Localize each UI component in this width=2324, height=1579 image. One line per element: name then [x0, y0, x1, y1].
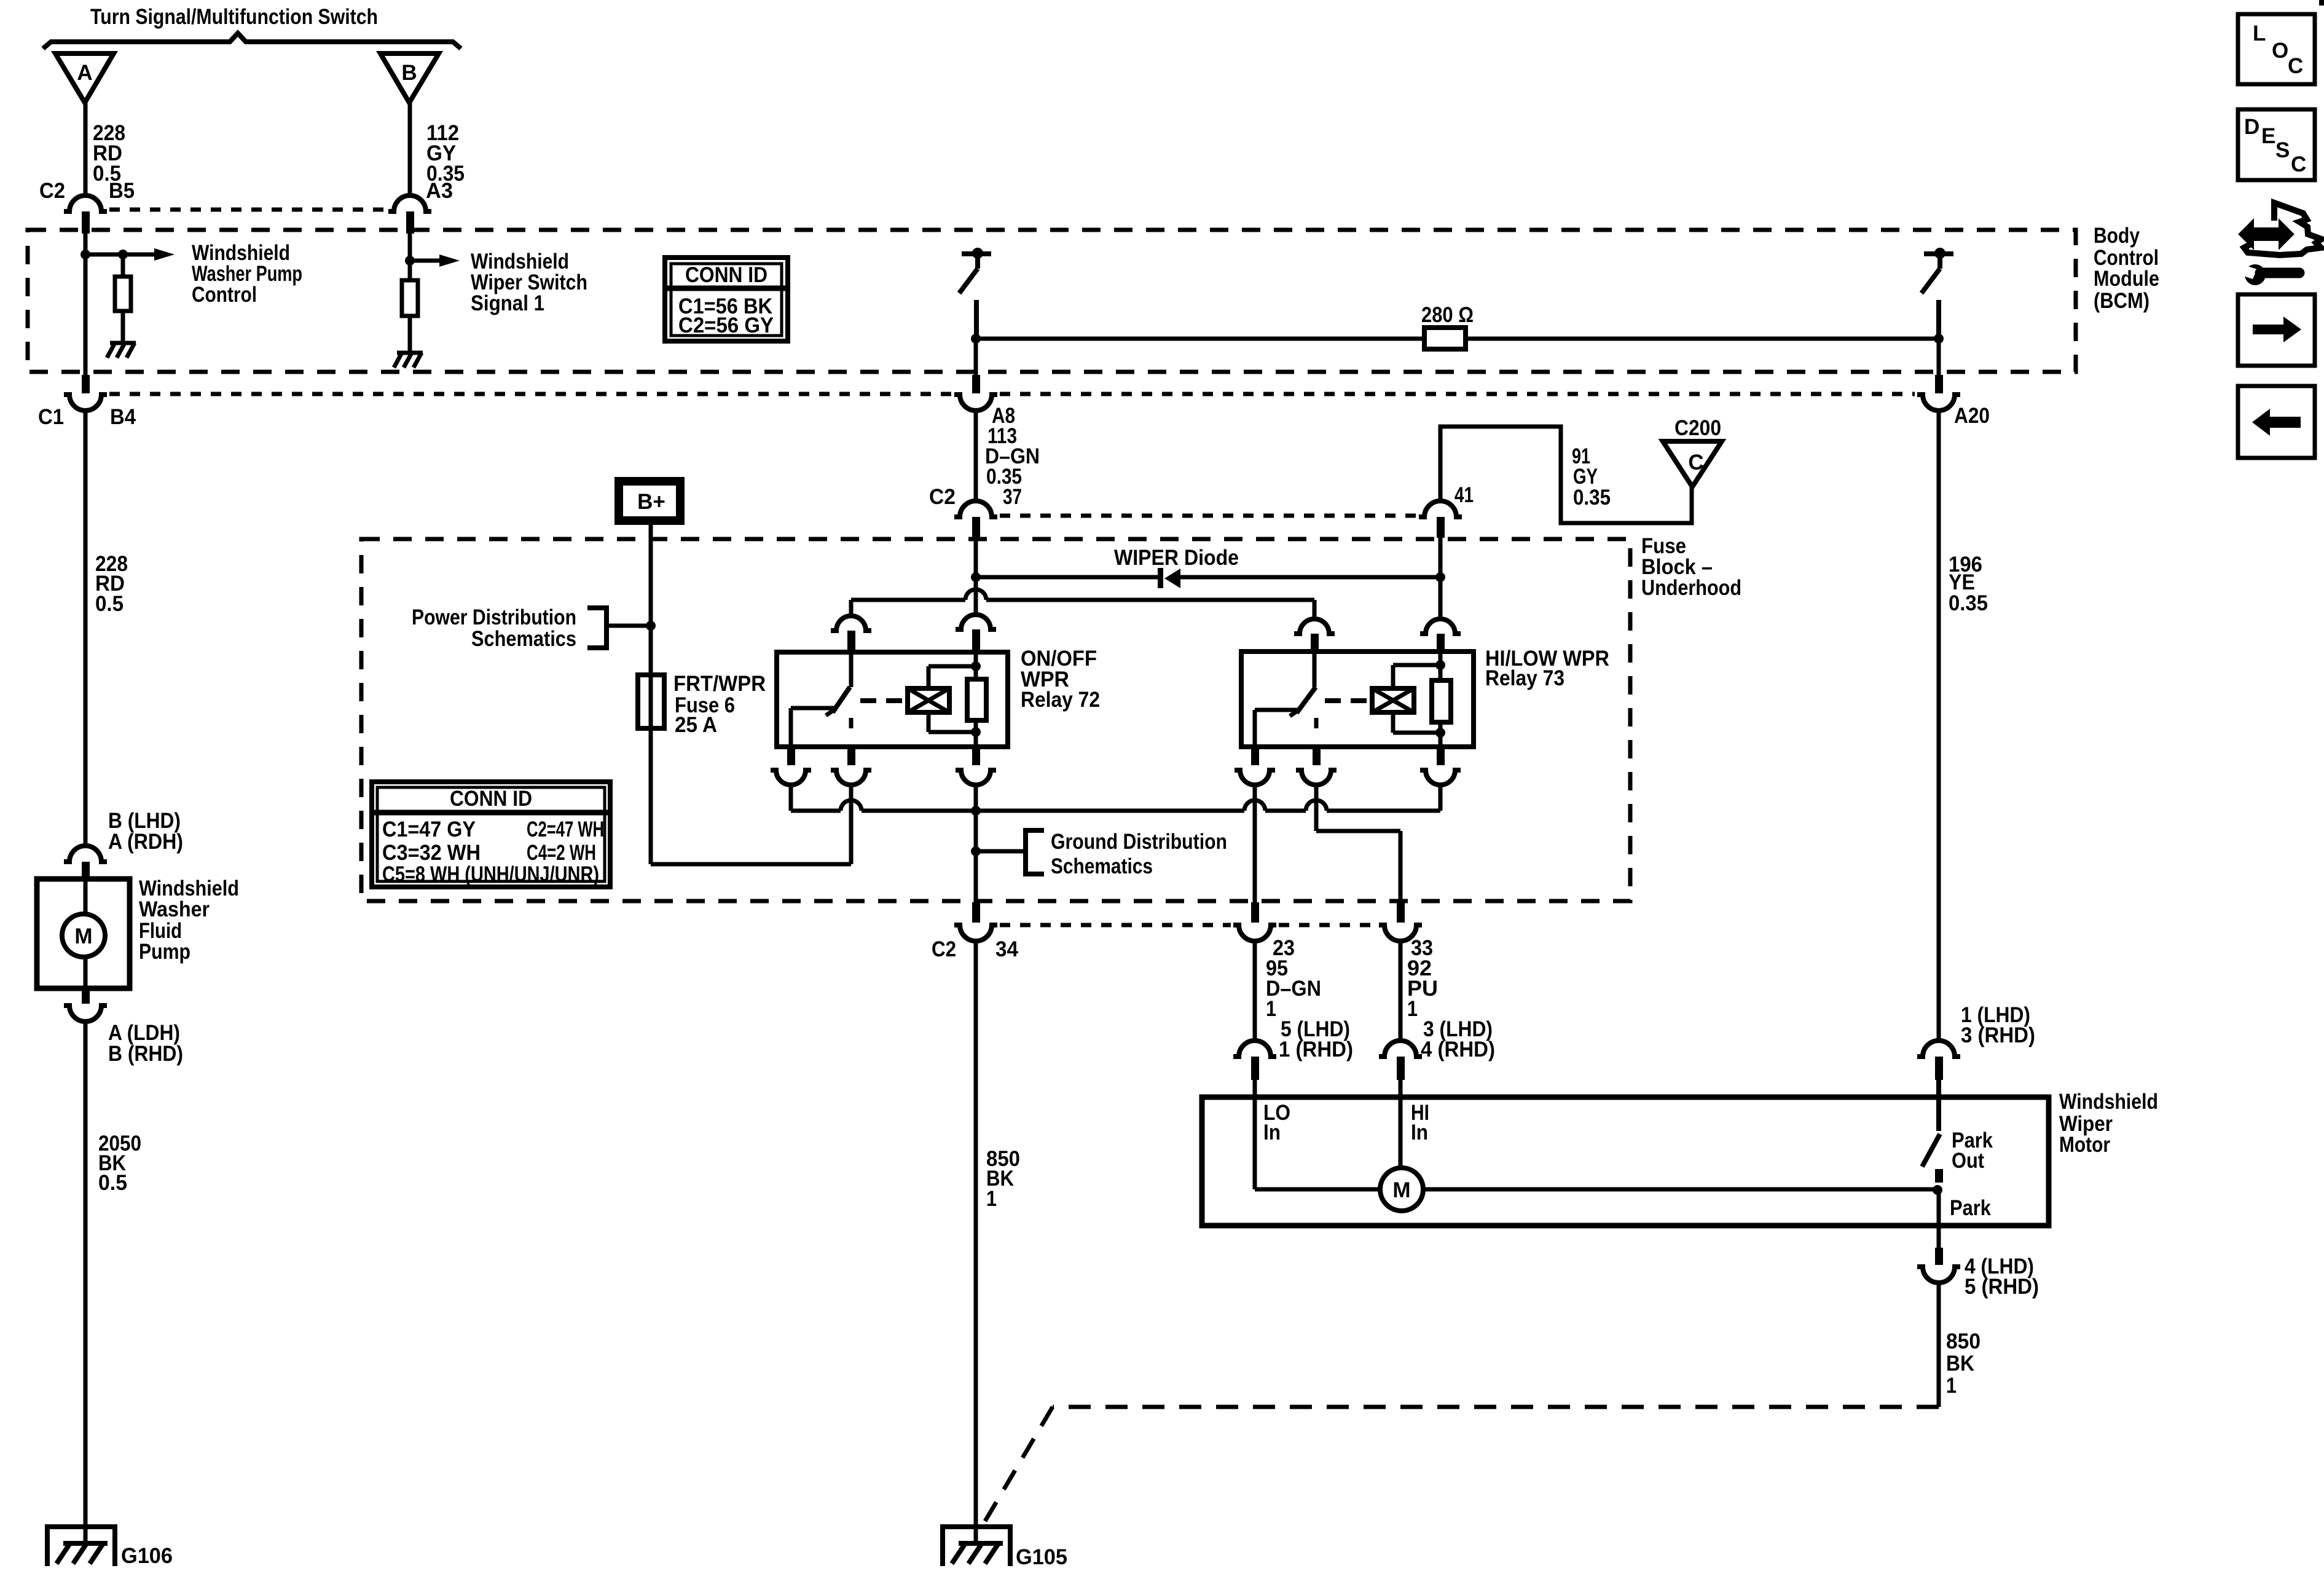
label 5 (LHD) 1 (RHD) — [1279, 1017, 1353, 1061]
svg-text:S: S — [2275, 138, 2290, 162]
svg-text:CONN ID: CONN ID — [450, 787, 532, 811]
bracket Power Distribution Schematics — [587, 608, 651, 648]
label C2 B5 — [39, 179, 135, 203]
arrow Windshield Wiper Switch Signal 1 — [439, 254, 460, 267]
svg-text:B (RHD): B (RHD) — [108, 1042, 183, 1066]
wire motor HI internal — [1399, 1080, 1403, 1168]
node washer pump control tee — [80, 250, 154, 259]
wire B inside BCM — [408, 234, 412, 280]
label 1 (LHD) 3 (RHD) — [1961, 1003, 2035, 1047]
wire relay73 coil feed — [1435, 538, 1445, 618]
svg-text:C2=56 GY: C2=56 GY — [678, 313, 774, 337]
svg-text:(BCM): (BCM) — [2094, 289, 2149, 313]
svg-text:C5=8 WH (UNH/UNJ/UNR): C5=8 WH (UNH/UNJ/UNR) — [382, 862, 599, 886]
switch BCM left (wiper on/off driver) — [959, 248, 991, 337]
wire label 2050 BK 0.5 — [98, 1132, 141, 1195]
svg-text:B+: B+ — [637, 490, 665, 514]
connector relay73 switch pin — [1294, 619, 1335, 653]
svg-text:C3=32 WH: C3=32 WH — [382, 841, 481, 865]
svg-text:0.5: 0.5 — [98, 1171, 127, 1195]
svg-text:C2: C2 — [929, 485, 956, 509]
wire 113 D-GN to fuse block — [974, 409, 978, 501]
connector line 37-41 dotted — [1000, 514, 1416, 518]
wire 2050 BK to G106 — [84, 1020, 88, 1542]
wire label 196 YE 0.35 — [1949, 553, 1988, 615]
svg-text:41: 41 — [1454, 483, 1474, 507]
svg-text:C2: C2 — [932, 937, 956, 961]
svg-text:C: C — [2291, 152, 2306, 176]
svg-text:C2=47 WH: C2=47 WH — [527, 817, 604, 841]
svg-text:Schematics: Schematics — [1051, 854, 1153, 878]
ground G105 — [943, 1527, 1010, 1566]
svg-text:5 (RHD): 5 (RHD) — [1965, 1275, 2039, 1299]
CONN ID table (BCM connectors) — [665, 258, 788, 341]
switch BCM right (hi/low driver) — [1922, 248, 1953, 337]
svg-text:Relay 73: Relay 73 — [1485, 666, 1564, 690]
windshield wiper motor box — [1202, 1097, 2049, 1226]
svg-text:25 A: 25 A — [675, 713, 717, 737]
coil relay73 — [1372, 660, 1445, 738]
wire BCM right to A20 — [1937, 339, 1941, 375]
label Ground Distribution Schematics — [1051, 830, 1227, 878]
svg-text:Windshield: Windshield — [2059, 1090, 2158, 1114]
svg-text:B4: B4 — [110, 405, 136, 429]
label Windshield Wiper Switch Signal 1 — [471, 250, 587, 315]
svg-text:D: D — [2244, 115, 2259, 139]
Fuse Block Underhood dashed box — [361, 539, 1630, 901]
corner mark — [2319, 0, 2324, 6]
label G106 — [121, 1544, 173, 1568]
linkage relay73 dashed — [1325, 698, 1372, 703]
label ON/OFF WPR Relay 72 — [1021, 647, 1100, 712]
motor M wiper — [1380, 1168, 1423, 1211]
ground washer pump control — [107, 343, 136, 358]
icon arrow right box — [2238, 294, 2315, 366]
wire fuse to relay72 NO — [651, 728, 851, 864]
label C2 37 — [929, 485, 1022, 509]
label C200 — [1674, 416, 1721, 440]
svg-text:Power Distribution: Power Distribution — [412, 605, 576, 629]
svg-text:1: 1 — [1407, 997, 1418, 1021]
svg-text:Relay 72: Relay 72 — [1021, 688, 1100, 712]
wire label 850 BK 1 (left) — [986, 1147, 1020, 1211]
svg-text:Body: Body — [2094, 224, 2140, 248]
label HI In — [1411, 1101, 1429, 1144]
windshield washer fluid pump box — [37, 879, 130, 988]
wire BCM left to A8 — [974, 339, 978, 375]
wire 95 D-GN to motor LO In — [1253, 940, 1257, 1042]
svg-text:0.35: 0.35 — [1573, 486, 1611, 510]
connector relay72 coil pin — [956, 615, 996, 653]
svg-text:37: 37 — [1003, 485, 1022, 509]
svg-text:C1: C1 — [38, 405, 64, 429]
connector C1 pin B4 — [64, 375, 107, 411]
label 280 ohm — [1421, 303, 1474, 327]
wire relay72 NC to ground node — [791, 785, 1440, 816]
svg-text:BK: BK — [1946, 1352, 1974, 1376]
wire label 92 PU 1 — [1407, 956, 1438, 1021]
svg-text:A: A — [77, 61, 92, 85]
label Power Distribution Schematics — [412, 605, 576, 651]
svg-text:E: E — [2261, 124, 2275, 148]
label 3 (LHD) 4 (RHD) — [1421, 1017, 1495, 1061]
svg-text:1 (RHD): 1 (RHD) — [1279, 1038, 1353, 1061]
wire 850 BK 1 from park — [1937, 1282, 1941, 1407]
label A8 113 D-GN 0.35 — [985, 404, 1040, 489]
ground wiper switch signal — [394, 353, 423, 368]
label Windshield Washer Fluid Pump — [139, 876, 239, 964]
svg-text:FRT/WPR: FRT/WPR — [673, 672, 766, 696]
svg-text:280 Ω: 280 Ω — [1421, 303, 1474, 327]
svg-text:1: 1 — [1266, 997, 1276, 1021]
icon arrow left box — [2238, 386, 2315, 458]
Body Control Module dashed box — [28, 230, 2076, 372]
wire label 850 BK 1 (right) — [1946, 1329, 1981, 1398]
wire motor LO internal — [1255, 1080, 1380, 1189]
connector C2 pin B5 — [64, 195, 107, 234]
label 23 — [1273, 936, 1295, 960]
wire 91 GY from C200 to cavity 41 — [1440, 427, 1692, 523]
svg-text:1: 1 — [1946, 1374, 1957, 1398]
wire 228 RD to washer pump — [84, 409, 88, 847]
resistor washer pump control — [115, 254, 131, 342]
svg-text:C2: C2 — [39, 179, 65, 203]
label G105 — [1016, 1545, 1067, 1569]
resistor relay73 coil — [1432, 653, 1451, 746]
icon LOC box — [2238, 14, 2315, 84]
label LO In — [1263, 1101, 1290, 1144]
wire relay72 common to relay73 common — [851, 589, 1314, 619]
pin relay73 coil out — [1420, 744, 1461, 785]
svg-text:Out: Out — [1952, 1149, 1984, 1173]
svg-text:C1=47 GY: C1=47 GY — [382, 817, 476, 841]
svg-text:0.5: 0.5 — [95, 592, 124, 616]
svg-text:G106: G106 — [121, 1544, 173, 1568]
fuse FRT/WPR Fuse 6 25A — [638, 675, 664, 728]
svg-text:In: In — [1263, 1120, 1281, 1144]
svg-text:C: C — [1688, 451, 1703, 474]
resistor 280 ohm — [971, 328, 1944, 349]
svg-text:G105: G105 — [1016, 1545, 1067, 1569]
svg-text:34: 34 — [995, 937, 1019, 961]
icon DESC box — [2238, 109, 2315, 180]
label HI/LOW WPR Relay 73 — [1485, 647, 1609, 690]
svg-text:M: M — [74, 924, 92, 948]
label Turn Signal/Multifunction Switch — [90, 5, 378, 29]
connector pin A3 — [388, 195, 431, 234]
pin relay73 NO out — [1296, 744, 1337, 785]
pin relay72 coil out — [956, 744, 996, 785]
connector motor park bottom — [1917, 1248, 1960, 1283]
switch relay73 — [1255, 653, 1316, 746]
power feed B+ — [614, 477, 685, 525]
label Park Out — [1952, 1128, 1993, 1173]
connector line 34-23-33 dotted — [1000, 923, 1376, 927]
svg-text:1: 1 — [986, 1187, 997, 1211]
wire park to connector — [1937, 1190, 1941, 1249]
wire relay72 coil feed — [971, 538, 981, 615]
svg-text:O: O — [2272, 39, 2288, 63]
connector motor park out — [1917, 1041, 1960, 1080]
node wiper switch signal tee — [405, 256, 439, 266]
connector C2 pin A8 — [954, 375, 997, 411]
svg-text:4 (RHD): 4 (RHD) — [1421, 1038, 1495, 1061]
linkage relay72 dashed — [860, 698, 908, 703]
wire label 228 RD 0.5 (lower) — [95, 552, 128, 616]
connector relay73 coil pin — [1420, 619, 1461, 653]
connector pin A20 — [1917, 375, 1960, 411]
connector pump top — [64, 846, 107, 880]
wire relay73 NO to motor HI — [1316, 785, 1400, 902]
bracket Ground Distribution Schematics — [976, 830, 1044, 874]
label Windshield Washer Pump Control — [192, 241, 302, 307]
wire A inside BCM — [84, 234, 88, 375]
pin relay72 NO out — [831, 744, 871, 785]
wire label 91 GY 0.35 — [1572, 444, 1611, 510]
connector triangle B — [380, 53, 439, 103]
connector triangle C200 — [1663, 441, 1722, 487]
arrow Windshield Washer Pump Control — [154, 248, 175, 261]
resistor relay72 coil — [967, 653, 986, 746]
resistor wiper switch signal — [402, 280, 418, 352]
coil relay72 — [908, 661, 981, 737]
svg-text:Signal 1: Signal 1 — [471, 291, 544, 315]
label Fuse Block Underhood — [1641, 534, 1741, 600]
wire B+ to fuse — [646, 525, 656, 675]
svg-text:In: In — [1411, 1120, 1428, 1144]
svg-text:Control: Control — [192, 283, 257, 307]
svg-text:A20: A20 — [1954, 404, 1990, 428]
label Body Control Module (BCM) — [2094, 224, 2159, 313]
connector cavity 41 — [1419, 501, 1462, 538]
svg-text:L: L — [2253, 22, 2266, 45]
wire 112 GY from triangle B — [408, 103, 412, 197]
pin relay73 NC out — [1235, 744, 1275, 785]
CONN ID table (underhood connectors) — [372, 782, 610, 887]
ground G106 — [47, 1527, 115, 1566]
wire 92 PU to motor HI In — [1399, 940, 1403, 1042]
label A3 — [426, 179, 453, 203]
svg-text:M: M — [1392, 1178, 1410, 1202]
label C2 34 — [932, 937, 1019, 961]
connector C2 cavity 34 — [954, 902, 997, 941]
label 33 — [1411, 936, 1433, 960]
svg-text:Ground Distribution: Ground Distribution — [1051, 830, 1227, 854]
label 4 (LHD) 5 (RHD) — [1965, 1254, 2039, 1299]
svg-text:Motor: Motor — [2059, 1133, 2110, 1157]
label A20 — [1954, 404, 1990, 428]
svg-text:C4=2 WH: C4=2 WH — [527, 841, 596, 865]
svg-text:CONN ID: CONN ID — [685, 263, 767, 287]
svg-text:Schematics: Schematics — [471, 627, 576, 651]
connector C2 cavity 37 — [954, 501, 997, 538]
label B (LHD) A (RDH) — [108, 809, 183, 854]
svg-text:A3: A3 — [426, 179, 453, 203]
wire relay73 NC to motor LO — [1253, 785, 1257, 902]
svg-text:Pump: Pump — [139, 940, 190, 964]
label C1 B4 — [38, 405, 136, 429]
connector line C2/A3 dotted — [109, 208, 387, 212]
connector cavity 23 — [1233, 902, 1276, 941]
svg-text:Underhood: Underhood — [1641, 576, 1741, 600]
icon service tool (arrow panel wrench) — [2238, 203, 2322, 285]
svg-text:Module: Module — [2094, 267, 2159, 291]
svg-text:850: 850 — [1946, 1329, 1981, 1353]
label A (LDH) B (RHD) — [108, 1021, 183, 1066]
connector pump bottom — [64, 988, 107, 1022]
relay HI/LOW WPR Relay 73 box — [1241, 652, 1474, 747]
svg-text:B: B — [401, 61, 417, 85]
svg-text:Washer: Washer — [139, 897, 210, 921]
connector motor HI In — [1379, 1041, 1422, 1080]
connector line C1/B4-A8-A20 dotted — [109, 392, 1915, 396]
switch relay72 — [791, 653, 851, 746]
wire relay72 coil return — [971, 785, 981, 902]
svg-text:Park: Park — [1950, 1196, 1991, 1220]
diode WIPER Diode — [976, 568, 1440, 588]
wire label 228 RD 0.5 (upper) — [93, 121, 125, 186]
label Windshield Wiper Motor — [2059, 1090, 2158, 1157]
svg-text:WIPER Diode: WIPER Diode — [1114, 546, 1239, 570]
connector relay72 switch pin — [831, 616, 871, 653]
relay ON/OFF WPR Relay 72 box — [777, 652, 1008, 747]
svg-text:3 (RHD): 3 (RHD) — [1961, 1023, 2035, 1047]
svg-text:0.35: 0.35 — [1949, 591, 1988, 615]
wire label 112 GY 0.35 — [426, 121, 465, 186]
label WIPER Diode — [1114, 546, 1239, 570]
label Park — [1950, 1196, 1991, 1220]
brace Turn Signal/Multifunction Switch — [43, 33, 461, 49]
connector triangle A — [55, 53, 114, 103]
svg-text:Turn Signal/Multifunction Swit: Turn Signal/Multifunction Switch — [90, 5, 378, 29]
switch park out — [1922, 1080, 1943, 1183]
svg-text:A (RDH): A (RDH) — [108, 830, 183, 854]
svg-text:B5: B5 — [109, 179, 135, 203]
wire 196 YE to motor park — [1937, 409, 1941, 1042]
svg-text:C200: C200 — [1674, 416, 1721, 440]
wire 850 BK to G105 — [974, 940, 978, 1542]
svg-text:C: C — [2288, 54, 2303, 78]
connector motor LO In — [1233, 1041, 1276, 1080]
pin relay72 NC out — [771, 744, 811, 785]
wire 228 RD from triangle A — [84, 103, 88, 197]
label 41 — [1454, 483, 1474, 507]
label FRT/WPR Fuse 6 25 A — [673, 672, 766, 737]
wire label 95 D-GN 1 — [1266, 956, 1321, 1021]
connector cavity 33 — [1379, 902, 1422, 941]
wire dashed ground run to G105 — [983, 1407, 1939, 1524]
wire motor to park contact — [1423, 1185, 1942, 1195]
